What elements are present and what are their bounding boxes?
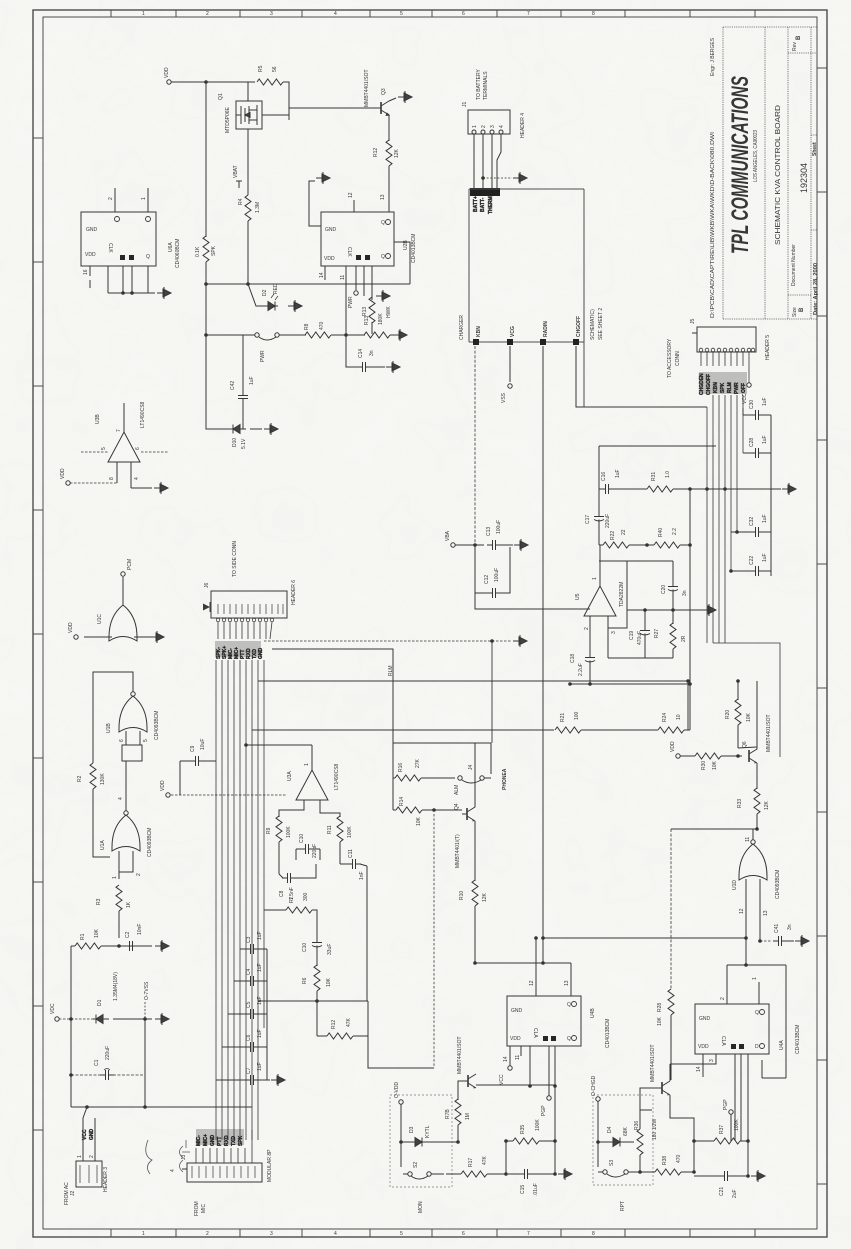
U4A pins bottom bbox=[670, 1054, 748, 1176]
gate U1C bbox=[109, 605, 137, 641]
capacitor C17 bbox=[598, 489, 600, 512]
resistor R22 bbox=[599, 544, 603, 546]
U4B pin 12 wire bbox=[535, 938, 537, 996]
diode D10 zener bbox=[230, 425, 246, 434]
RADIN rail tail bbox=[542, 938, 544, 963]
node PGP pad bbox=[547, 1096, 551, 1100]
capacitor C14 bbox=[346, 335, 357, 367]
LED D2 bbox=[248, 284, 262, 306]
bus step to lower right bbox=[713, 643, 780, 757]
U4A pin2 loop to Q bbox=[727, 965, 786, 1078]
node VDD pad for Q6 bbox=[676, 754, 680, 758]
wire y829 bbox=[671, 828, 757, 830]
wire VCG to VSS pad bbox=[509, 346, 511, 382]
gate U1A nand bbox=[112, 815, 140, 851]
resistor R36 bbox=[637, 1129, 643, 1155]
resistor R2 bbox=[90, 763, 96, 789]
U1A inputs joined down bbox=[119, 851, 133, 879]
bus net labels cluster bbox=[215, 641, 261, 657]
U5 input pins bbox=[583, 561, 627, 653]
node -7VSS stub bbox=[144, 1002, 146, 1019]
capacitor C15 bbox=[508, 1173, 519, 1175]
IC U6A pin 16 bbox=[89, 266, 91, 288]
U2B pins bottom bbox=[325, 266, 372, 334]
U4B pins bottom bbox=[510, 1046, 555, 1174]
U1C output to PWR pad bbox=[122, 577, 124, 605]
resistor R12 bbox=[388, 115, 390, 141]
resistor R11 bbox=[337, 816, 343, 842]
BATT pads black blobs bbox=[470, 188, 500, 196]
diode D1 zener bbox=[93, 1015, 109, 1024]
capacitor C42 bbox=[242, 335, 244, 391]
resistor R38 bbox=[633, 1171, 655, 1173]
wire MOSFET to rail bbox=[248, 82, 289, 120]
node VDD pad top-left bbox=[167, 80, 171, 84]
node VCC pad bbox=[508, 1066, 512, 1070]
resistor R20 bbox=[737, 681, 739, 700]
node CHGOFF diamond pad bbox=[573, 339, 579, 345]
resistor R6 bbox=[314, 965, 320, 991]
IC U4B CD4013 box bbox=[507, 996, 581, 1046]
header6 pin circles and wires bbox=[216, 618, 273, 621]
connector J5 HEADER 5 bbox=[692, 327, 756, 352]
gate U1B nand bbox=[119, 696, 147, 732]
capacitor C10b electrolytic bbox=[312, 937, 322, 951]
right rail joining caps bbox=[770, 415, 772, 576]
Q6 collector wire up bbox=[738, 681, 757, 748]
U1B inputs to pin box bbox=[126, 731, 140, 745]
wire to MON bbox=[368, 1036, 434, 1068]
wire VDD rail horizontal bbox=[171, 81, 255, 83]
wire branch to U3A output bbox=[246, 744, 312, 746]
resistor R24 bbox=[658, 727, 684, 733]
jumper J4 ALM pads bbox=[458, 776, 462, 780]
capacitor C10 feedback bbox=[296, 849, 320, 860]
capacitor C2 bbox=[124, 941, 138, 951]
dashed cell box RPT bbox=[593, 1095, 653, 1185]
ground at Q3 collector bbox=[389, 98, 396, 101]
wire junction row bbox=[206, 283, 410, 285]
connector J1 HEADER 4 bbox=[468, 110, 510, 134]
resistor R16 bbox=[395, 775, 421, 781]
IC U6A pins bottom to ground bbox=[108, 266, 155, 293]
wire branch y730 bbox=[252, 729, 554, 731]
resistor R9 bbox=[276, 816, 282, 842]
switch S2 bbox=[408, 1172, 412, 1176]
IC U4A CD4013 box bbox=[695, 1004, 769, 1054]
Q5 collector row bbox=[476, 1084, 555, 1086]
connector J6 HEADER 6 bbox=[211, 591, 287, 618]
net labels above modular jack bbox=[196, 1129, 244, 1145]
U4A pin1 stub bbox=[758, 982, 760, 1004]
resistor R4 bbox=[247, 129, 249, 195]
node PWR pad bbox=[354, 291, 358, 295]
feedback box top wire bbox=[599, 446, 716, 489]
op-amp U3B bbox=[108, 432, 140, 462]
U5 output up bbox=[599, 545, 601, 586]
wire KBN rail down bbox=[474, 346, 476, 609]
bottom of feedback box bbox=[608, 628, 673, 658]
transistor Q7 bbox=[654, 1081, 670, 1095]
bus wires from header5 down bbox=[707, 395, 743, 643]
capacitor C21 bbox=[694, 1175, 719, 1177]
vertical to R24 row bbox=[689, 545, 691, 730]
header5 pin wires down bbox=[701, 352, 749, 383]
U1B output wire to left rail bbox=[93, 672, 133, 763]
wires header4 to batt pads bbox=[474, 134, 501, 188]
U1A output wire up to box bbox=[125, 761, 127, 811]
caps ladder C3 bbox=[240, 948, 267, 950]
U3B output pin 7 bbox=[123, 403, 125, 432]
capacitor C11 bbox=[340, 864, 367, 866]
capacitor C19 bbox=[644, 610, 646, 626]
transistor Q6 bbox=[749, 747, 757, 763]
transistor Q4 bbox=[462, 805, 475, 821]
top wire of phone cell bbox=[393, 743, 491, 810]
capacitor C18 bbox=[585, 652, 595, 666]
resistor R21 bbox=[555, 727, 581, 733]
resistor R7 bbox=[264, 909, 286, 911]
IC U6A CD4060 box bbox=[81, 212, 156, 266]
node VCC pad bbox=[747, 383, 751, 387]
ground rail under U5 bbox=[627, 609, 702, 611]
resistor R33 bbox=[756, 763, 758, 789]
wire RADIN long rail down bbox=[542, 346, 544, 938]
ladder right rail bbox=[266, 949, 268, 1080]
capacitor C41 bbox=[760, 940, 772, 942]
capacitor C12 bbox=[475, 545, 510, 593]
capacitor C20 bbox=[668, 581, 678, 595]
wire to U5 input bbox=[475, 593, 583, 609]
caps ladder C4 bbox=[234, 980, 267, 982]
loop wires bbox=[258, 1001, 368, 1036]
resistor R13b on rail bbox=[364, 332, 390, 338]
capacitor C28 bbox=[743, 452, 771, 454]
U1C inputs bbox=[84, 636, 150, 638]
resistor R12b bbox=[327, 1033, 353, 1039]
node VDC pad bbox=[55, 1017, 59, 1021]
capacitor C9 bbox=[180, 760, 216, 762]
op-amp U3A bbox=[296, 770, 328, 800]
feedback network box bbox=[599, 561, 673, 582]
diode D4 bbox=[598, 1141, 607, 1143]
dashed cell box MON bbox=[390, 1095, 452, 1187]
resistor R30 bbox=[695, 753, 721, 759]
capacitor C1 bbox=[71, 1074, 145, 1076]
resistor R37 bbox=[694, 1140, 714, 1142]
switch S3 bbox=[603, 1170, 607, 1174]
wire RLM branch y649 bbox=[272, 649, 393, 743]
resistor R8 bbox=[305, 332, 331, 338]
annotation squiggle bbox=[146, 1140, 190, 1174]
resistor R40 bbox=[654, 542, 680, 548]
modular jack pins down bbox=[196, 1130, 252, 1163]
connector J3 MODULAR 8P bbox=[182, 1163, 262, 1182]
U3B power pins bbox=[117, 462, 152, 488]
pin junction box bbox=[122, 745, 142, 761]
ground arrow with dashed stub bbox=[483, 177, 512, 179]
rail with resistor R6 SPK bbox=[205, 82, 207, 237]
U1D input pins down bbox=[746, 879, 760, 965]
title block frame bbox=[723, 27, 817, 319]
resistor R31 bbox=[647, 486, 673, 492]
wire branch y641 to ground bbox=[264, 640, 512, 642]
wire y684 bbox=[570, 683, 690, 685]
wire drain to Q3 bbox=[289, 107, 374, 109]
node VDD pad MON bbox=[399, 1100, 403, 1104]
wire CHGOFF down and right bbox=[576, 346, 707, 407]
node VBA pad bbox=[451, 543, 455, 547]
node PGP pad right bbox=[729, 1110, 733, 1114]
bottom rail bbox=[71, 1106, 252, 1108]
Q7 base wire bbox=[640, 1088, 654, 1110]
caps ladder C7 bbox=[216, 1079, 270, 1081]
border zone numerals bbox=[142, 11, 595, 1237]
resistor R1 bbox=[71, 945, 75, 947]
ground arrow near pin9 bbox=[376, 290, 390, 302]
left rail down bbox=[70, 946, 72, 1107]
wire U2B Q feedback bbox=[394, 242, 410, 284]
capacitor C8 bbox=[279, 874, 283, 878]
net name labels cluster bbox=[699, 372, 747, 394]
capacitor C16 bbox=[600, 484, 614, 494]
ground right of R31 bbox=[782, 483, 796, 495]
wire rail down to D10 bbox=[206, 335, 232, 429]
U2B pins top bbox=[354, 200, 389, 212]
resistor R17 bbox=[446, 1173, 461, 1175]
battery net box bbox=[469, 189, 584, 407]
Q5 base chain R7B bbox=[458, 1081, 460, 1100]
U3B input wires bbox=[81, 451, 168, 453]
node CHGD pad bbox=[596, 1097, 600, 1101]
R35 block wires bbox=[506, 1141, 513, 1174]
junction bbox=[204, 80, 208, 84]
resistor R5 bbox=[257, 79, 283, 85]
resistor R13 vertical bbox=[369, 297, 375, 323]
transistor Q1 MOSFET MTD5P06E bbox=[236, 101, 262, 129]
diode D3 bbox=[401, 1141, 409, 1143]
node VBATT tap bbox=[236, 181, 242, 188]
bus vertical wires bbox=[216, 660, 264, 1140]
node VDD pad with dashed rail bbox=[166, 793, 170, 797]
resistor R3 bbox=[116, 885, 122, 911]
node VCG diamond pad bbox=[507, 339, 513, 345]
U3A input pins bbox=[279, 800, 340, 817]
capacitor C32 bbox=[731, 531, 771, 533]
wire dashed from R14 down bbox=[433, 814, 435, 1068]
caps ladder C5 bbox=[228, 1013, 267, 1015]
node KBN diamond pad bbox=[473, 339, 479, 345]
capacitor C13 bbox=[487, 540, 501, 550]
capacitor C30 bbox=[743, 408, 771, 415]
rail VSS vertical bbox=[144, 1019, 146, 1107]
op-amp U5 TDA2822M bbox=[584, 586, 616, 616]
switch S1 PWR bbox=[206, 334, 255, 336]
junction from RLM wire bbox=[687, 681, 689, 730]
wire y963 to U4B clk bbox=[475, 963, 571, 996]
node VDD pad bbox=[66, 481, 70, 485]
ground bbox=[154, 482, 168, 494]
R28 chain from y829 bbox=[670, 829, 672, 990]
Q4 emitter chain R10 bbox=[474, 821, 476, 881]
resistor R14 bbox=[396, 807, 422, 813]
IC U6A pins top bbox=[115, 188, 148, 212]
resistor R35 bbox=[513, 1138, 539, 1144]
connector J2 HEADER 3 bbox=[83, 1107, 95, 1161]
wire y938 long bbox=[543, 937, 746, 939]
U2B pin6 to ground arrow bbox=[309, 181, 321, 226]
capacitor C22 bbox=[731, 570, 771, 572]
transistor Q3 MMBT4401 bbox=[374, 101, 389, 115]
IC U2B CD4013 box bbox=[321, 212, 394, 266]
resistor R27 bbox=[672, 610, 674, 624]
Q7 collector row to U4A clk bbox=[669, 1064, 671, 1081]
gate U1D nand bbox=[739, 844, 767, 880]
caps ladder C6 bbox=[222, 1046, 267, 1048]
transistor Q5 bbox=[460, 1074, 476, 1088]
node RADIN diamond pad bbox=[540, 339, 546, 345]
wire branch y681 long bbox=[258, 680, 688, 682]
Q7 emitter to R38 node bbox=[670, 1095, 694, 1172]
wire dashed down to phone cell bbox=[491, 641, 493, 743]
ground arrow at header6 pin1 bbox=[203, 602, 210, 612]
U3A output wire bbox=[311, 745, 313, 770]
